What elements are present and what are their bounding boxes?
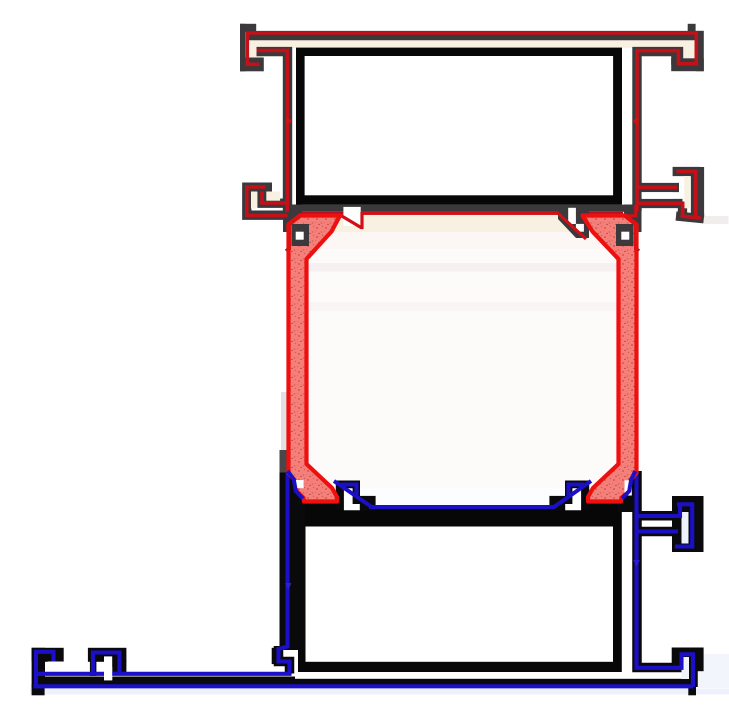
middle chamber tint bands bbox=[302, 214, 623, 505]
top profile left bracket cream pocket bbox=[249, 40, 262, 58]
top profile bottom wall dark band bbox=[288, 205, 642, 212]
white gap between arm A and clip bbox=[642, 192, 673, 199]
groove outer red edge left funnel bbox=[289, 216, 300, 250]
left wall jog black block bbox=[272, 648, 282, 664]
bottom profile navy lines bbox=[34, 472, 694, 687]
gasket white pocket left bbox=[343, 207, 360, 226]
top profile lower-right arm A dark bbox=[637, 183, 679, 192]
gray remnant above left wall bbox=[280, 450, 289, 473]
groove white pocket left funnel bbox=[296, 232, 304, 240]
faint lavender block right of lower clip bbox=[698, 654, 729, 688]
lavender pocket in bottom-right lower clip bbox=[682, 657, 690, 679]
stub below base left bbox=[32, 684, 45, 695]
white pocket right wall funnel bbox=[625, 480, 632, 495]
faint gray line to right edge bbox=[704, 216, 729, 224]
gasket white pockets right bbox=[568, 208, 576, 224]
bottom profile black mass / bottom panel frame bbox=[298, 509, 622, 672]
navy wrap left funnel neck bbox=[288, 471, 303, 499]
top profile red centerlines bbox=[247, 33, 701, 218]
black connector rect wall-to-panel bottom right bbox=[621, 503, 641, 513]
base plate black bbox=[33, 679, 693, 685]
bottom lavender shadow band bbox=[30, 689, 729, 695]
navy arrow on bottom-left wall bbox=[285, 583, 292, 590]
top profile cream chamber fill bbox=[249, 35, 694, 48]
top profile gasket red band bbox=[299, 212, 623, 215]
bottom profile black strokes bbox=[279, 471, 694, 687]
top profile lower-left hook dark bbox=[247, 187, 288, 215]
top profile right J cream pocket bbox=[683, 40, 694, 59]
thermal break strut left (pink with red outline) bbox=[289, 216, 341, 502]
top profile dark outline (main) bbox=[248, 36, 697, 212]
top profile left end bracket dark blocks bbox=[240, 24, 264, 72]
groove dark patch right funnel bbox=[616, 224, 634, 246]
white L pocket bottom-left bbox=[344, 488, 360, 510]
base plate T flange black B bbox=[88, 648, 127, 662]
stub below base right bbox=[688, 684, 696, 695]
navy gasket line bottom bbox=[334, 481, 591, 507]
lower-right clip cream pocket bbox=[684, 176, 689, 208]
black step blocks near bottom-left gasket bbox=[336, 481, 360, 510]
base plate left raised flange black A bbox=[32, 648, 64, 662]
merged black band left wall to panel bbox=[280, 472, 306, 650]
red arrow on right wall bbox=[632, 117, 639, 126]
groove outer red edge right funnel bbox=[625, 216, 636, 250]
navy arrow on bottom-right wall bbox=[633, 560, 640, 567]
navy wrap right funnel neck bbox=[622, 471, 635, 499]
black step blocks near bottom-right gasket bbox=[565, 481, 589, 510]
bottom panel white fill bbox=[306, 527, 614, 662]
dark diagonal behind left funnel neck bbox=[288, 233, 309, 253]
white pocket left wall funnel bbox=[296, 480, 304, 488]
white slot in T flange bbox=[104, 656, 112, 680]
black tabs under funnels bbox=[300, 503, 341, 511]
lower-right clip dark column bbox=[696, 167, 705, 217]
groove white pocket right funnel bbox=[621, 232, 629, 240]
base left spine black bbox=[32, 648, 45, 689]
bottom-right lower clip black block bbox=[672, 648, 704, 672]
dark diagonal behind right funnel neck bbox=[616, 233, 637, 253]
lavender pocket in bottom-right upper clip bbox=[682, 512, 689, 544]
top glazing panel white fill bbox=[305, 56, 613, 195]
lower-left hook cream pockets bbox=[251, 192, 257, 209]
red gasket line top bbox=[341, 205, 636, 239]
thermal break strut right (pink with red outline) bbox=[583, 216, 637, 502]
bottom-right upper clip black block bbox=[672, 496, 704, 552]
white pocket under flange A bbox=[48, 662, 64, 674]
top profile lower-right clip dark bbox=[637, 172, 704, 219]
groove dark patch left funnel bbox=[292, 224, 310, 246]
top profile right end J dark blocks bbox=[671, 24, 704, 71]
white L pocket bottom-right bbox=[565, 488, 581, 510]
top glazing panel black frame bbox=[296, 48, 622, 205]
dark fills around left lower hook / funnel neck bbox=[283, 205, 642, 239]
red arrow on left wall bbox=[286, 117, 293, 126]
white slot in T flange (over navy) bbox=[104, 667, 112, 680]
